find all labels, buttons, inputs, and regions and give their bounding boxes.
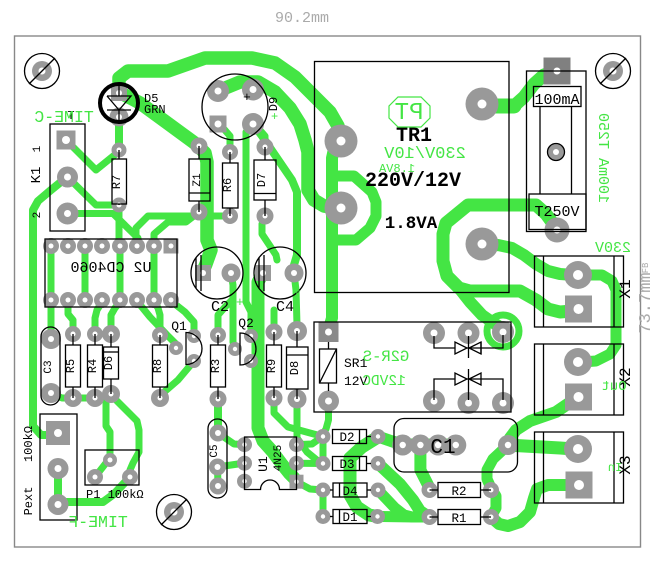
wire C5 pads vertical — [214, 467, 222, 486]
pad X2 round — [564, 348, 592, 376]
pad C4 round — [285, 264, 304, 283]
wire K1-2 to R7 bottom — [68, 177, 120, 205]
pads Pext round — [48, 458, 69, 479]
resistor R5 outline — [66, 345, 81, 387]
pad TR1 p4 — [466, 228, 499, 261]
pads D6 — [102, 325, 120, 343]
svg-text:+: + — [243, 90, 251, 105]
pad fuse top square — [544, 58, 571, 85]
resistor R3 outline — [211, 345, 226, 387]
cap C5 outline — [208, 419, 227, 498]
wire P1 top up — [106, 400, 110, 460]
pad TR1 p3 — [466, 88, 499, 121]
pads R4 — [87, 326, 103, 342]
wire U1 to D3 — [297, 460, 324, 467]
svg-text:X1: X1 — [617, 279, 635, 298]
svg-text:1.8VA: 1.8VA — [378, 162, 415, 176]
wire C1 right to X3 round — [507, 445, 574, 449]
wire C1 right zigzag R2 R1 — [487, 446, 507, 515]
wire C4 to D8 top — [294, 273, 297, 331]
svg-text:T250V: T250V — [534, 204, 579, 221]
wire R6 top to D9 — [218, 124, 230, 152]
connector K1 outline — [50, 124, 85, 231]
wire C4 square to U1 square — [258, 273, 297, 482]
cap C1 outline — [394, 419, 518, 473]
wire D4 right to R1 left — [378, 490, 429, 517]
wire C5 to U1 pin — [218, 433, 245, 445]
pads R1 — [422, 509, 438, 525]
resistor R4 outline — [88, 345, 103, 387]
pad D7 top — [257, 139, 274, 156]
wire D2 right S-band to D1 right — [350, 437, 378, 517]
svg-text:100mA: 100mA — [534, 92, 579, 109]
pad fuse bottom — [545, 218, 570, 243]
pads U2 top row — [43, 238, 59, 254]
mounting hole bottom-left — [157, 495, 192, 530]
wire D3 right to R1 left — [378, 464, 429, 518]
connector X2 outline — [535, 344, 624, 415]
pad Pext square — [46, 421, 70, 445]
svg-text:U1: U1 — [256, 456, 271, 472]
pad D5 round — [110, 108, 129, 127]
resistor R7 leads — [118, 150, 120, 159]
svg-text:C1: C1 — [430, 437, 455, 460]
pad C3 top — [41, 329, 61, 349]
svg-text:R9: R9 — [265, 359, 279, 373]
svg-text:+: + — [271, 110, 278, 124]
svg-text:K1: K1 — [29, 167, 45, 184]
svg-text:TIME-C: TIME-C — [34, 108, 94, 127]
wire SR1 coil to D2 left — [323, 401, 329, 434]
connector Pext outline — [40, 414, 77, 520]
trimmer P1 outline — [85, 450, 139, 485]
wire D6 top — [111, 302, 120, 330]
svg-text:D1: D1 — [342, 511, 357, 525]
ring octagon around TR1 pad2 — [332, 176, 376, 240]
bridge D9 outline — [202, 74, 268, 140]
diode D6 outline — [104, 347, 119, 379]
wire R9 bottom to D2 left — [274, 398, 323, 437]
pad TR1 p2 — [325, 192, 358, 225]
wire U2 column verticals — [48, 246, 55, 300]
wire thick D5 to C2 square — [119, 92, 211, 271]
diode D4 outline — [333, 483, 367, 497]
svg-text:D4: D4 — [342, 485, 357, 499]
resistor R1 outline — [438, 510, 481, 525]
pads D8 — [287, 321, 307, 341]
relay SR1 outline — [314, 322, 511, 412]
wire ring to relay ring — [459, 288, 503, 331]
resistor R9 outline — [267, 345, 282, 387]
wire R1 right to X3 square — [491, 485, 575, 526]
wire R7 bottom to U2 pad — [116, 205, 123, 246]
pad X1 round — [564, 261, 592, 289]
svg-text:D2: D2 — [339, 431, 354, 445]
wire Q1 left — [137, 301, 176, 348]
svg-text:+: + — [236, 295, 244, 310]
wire chain to P1 right — [111, 395, 139, 470]
pad D9 se — [242, 113, 264, 135]
svg-text:D8: D8 — [288, 361, 302, 375]
pad holes — [62, 136, 70, 144]
pads U2 bottom row — [43, 292, 59, 308]
ring relay pad — [487, 315, 519, 347]
svg-text:GRN: GRN — [144, 103, 166, 117]
wire X2 square to C1 right — [508, 397, 578, 445]
pad D7 bottom — [257, 208, 274, 225]
wire C2 to Q2 left — [231, 273, 235, 349]
pads D3 — [316, 456, 331, 471]
wire D8 bottom to D3 left — [297, 399, 323, 464]
wire Q2 bottom — [251, 361, 260, 372]
svg-text:R2: R2 — [451, 485, 466, 499]
svg-text:C2: C2 — [211, 299, 229, 316]
svg-text:D7: D7 — [255, 173, 269, 187]
pad K1-2 — [57, 167, 78, 188]
svg-text:12VDC: 12VDC — [362, 374, 406, 390]
wire D4-D1 left pads — [320, 490, 327, 517]
zener Z1 outline — [189, 159, 210, 201]
diode D7 leads — [264, 147, 266, 160]
wire P1 right to Pext bottom — [58, 477, 130, 504]
wire thick arc D5 over D9 to TR1 pad1 — [119, 58, 341, 141]
pads R2 — [422, 482, 438, 498]
pads U1 — [237, 437, 252, 452]
svg-text:FB: FB — [641, 262, 651, 273]
svg-text:D6: D6 — [102, 356, 116, 370]
pad TR1 p1 — [325, 125, 358, 158]
wire D2 right to C1 — [378, 437, 403, 445]
svg-text:C5: C5 — [209, 444, 221, 457]
relay contact diagram top — [434, 335, 503, 358]
pad fuse mid — [548, 144, 564, 160]
pad X2 square — [565, 384, 592, 411]
pads D1 — [316, 509, 331, 524]
connector X3 outline — [535, 432, 624, 503]
wire D2-D3 left pads — [320, 437, 327, 464]
svg-text:P1 100kΩ: P1 100kΩ — [86, 488, 144, 502]
pads Q2 — [228, 342, 242, 356]
svg-text:Pext: Pext — [22, 487, 36, 516]
svg-text:R5: R5 — [64, 359, 78, 373]
pads D2 — [316, 429, 331, 444]
svg-text:R4: R4 — [86, 359, 100, 373]
pad R6 top — [222, 144, 238, 160]
connector X1 outline — [535, 256, 624, 327]
pad C2 round — [222, 264, 241, 283]
wire C3 top — [48, 300, 55, 331]
wire C5 mid to U1 — [218, 463, 245, 467]
pads R9 — [266, 324, 283, 341]
svg-text:1: 1 — [32, 145, 44, 152]
wire Q1 bottom to R8 bottom — [160, 361, 194, 396]
svg-text:G2R-S: G2R-S — [363, 348, 410, 366]
diode D2 outline — [333, 430, 367, 444]
pads Q1 — [169, 341, 183, 355]
wire bend to fuse square pad — [514, 71, 555, 106]
svg-text:Z1: Z1 — [192, 173, 204, 187]
pad D5 square — [111, 85, 127, 101]
transistor Q2 outline — [240, 333, 256, 365]
wire D1 right to R1 left — [378, 511, 429, 523]
svg-text:4N25: 4N25 — [273, 445, 285, 471]
wire U1 to D2 — [297, 437, 324, 445]
pad X1 square — [565, 296, 592, 323]
transistor Q1 outline — [186, 333, 202, 365]
wire behind C1 pads — [403, 439, 456, 448]
wire K1-1 to R7 top — [72, 146, 119, 170]
wire Q1 top — [171, 301, 194, 333]
svg-text:TIME-F: TIME-F — [68, 513, 127, 532]
wire D7 top to D9 — [253, 125, 265, 147]
svg-text:100mA T250: 100mA T250 — [594, 113, 611, 203]
wire U1 sq to D4 — [297, 482, 324, 490]
wire R5 top — [68, 300, 73, 331]
pads R8 — [152, 327, 168, 343]
svg-text:D3: D3 — [339, 458, 354, 472]
pad R6 bottom — [222, 208, 238, 224]
IC socket U2 outline — [45, 239, 177, 307]
wire R8 top — [154, 301, 160, 332]
pad R7 bottom — [112, 198, 127, 213]
svg-text:Q2: Q2 — [238, 316, 254, 331]
pad X3 round — [564, 435, 592, 463]
pad SR1 coil square — [319, 322, 339, 342]
pads P1 — [103, 453, 117, 467]
wire D9 pad to C4 round — [253, 124, 297, 273]
wire K1-3 to U2 pad — [68, 214, 139, 247]
wire U2 pads to Z1/R6 bottom — [136, 216, 230, 246]
svg-text:230V: 230V — [595, 240, 631, 257]
diode D7 outline — [254, 160, 276, 200]
wire P1 internal — [95, 460, 110, 477]
pad C4 square — [255, 265, 271, 281]
pads R5 — [65, 326, 81, 342]
pads C1 — [392, 435, 413, 456]
svg-text:R1: R1 — [451, 512, 466, 526]
pads R3 — [210, 327, 226, 343]
svg-text:90.2mm: 90.2mm — [275, 10, 329, 27]
wire TR1 pad4 to X1 round — [482, 245, 574, 275]
wire D7 bottom down — [262, 216, 277, 260]
pad X3 square — [566, 472, 593, 499]
wire R3 bottom to C5 — [214, 399, 222, 433]
wire X1 round wrap to X2 round — [578, 275, 616, 362]
svg-text:100kΩ: 100kΩ — [22, 426, 36, 462]
pad SR1 coil round — [318, 391, 339, 412]
pad D9 sw square — [210, 116, 227, 133]
pad D9 ne — [242, 79, 264, 101]
resistor R7 outline — [112, 159, 127, 204]
wire C1 to R2 left — [420, 445, 429, 488]
diode D8 outline — [287, 347, 309, 389]
wire D5 to R7 top — [115, 117, 123, 149]
fuse outline — [527, 71, 587, 232]
svg-text:U2 CD4060: U2 CD4060 — [70, 260, 151, 277]
svg-text:2: 2 — [32, 212, 44, 219]
relay contact diagram bottom — [434, 369, 503, 400]
pads C5 — [210, 425, 227, 442]
resistor R8 outline — [153, 345, 168, 387]
wire D9 pad down between C2 C4 to Q2 top — [246, 124, 253, 336]
wire K1-2 left rail to Pext — [33, 177, 67, 435]
svg-text:In: In — [608, 461, 622, 475]
pad Z1 bottom — [191, 204, 208, 221]
svg-text:PT: PT — [395, 100, 424, 127]
wire R9 top — [271, 310, 278, 332]
resistor R6 outline — [223, 163, 239, 208]
pad C2 square — [195, 265, 211, 281]
svg-text:R8: R8 — [151, 359, 165, 373]
wire bottom chain C3-R5-R4-D6 — [51, 393, 111, 398]
cap C4 outline — [254, 247, 306, 299]
zener Z1 leads — [198, 146, 200, 159]
svg-text:+: + — [293, 284, 301, 299]
pad R7 top — [112, 143, 127, 158]
wire Pext pads — [54, 469, 62, 505]
pad D9 nw — [207, 80, 229, 102]
svg-text:C3: C3 — [43, 360, 55, 373]
svg-text:R3: R3 — [209, 359, 223, 373]
logo PT octagon — [389, 97, 430, 127]
svg-text:R7: R7 — [110, 175, 124, 189]
mounting hole top-right — [596, 54, 631, 89]
pads SR1 contacts — [423, 322, 445, 344]
svg-text:1.8VA: 1.8VA — [385, 214, 438, 234]
svg-text:C4: C4 — [276, 299, 294, 316]
resistor R2 outline — [438, 483, 481, 498]
svg-text:R6: R6 — [221, 178, 235, 192]
mounting hole top-left — [25, 54, 60, 89]
wire inner arc D9 to TR1 pad2 — [218, 82, 341, 208]
wire fuse bottom around TR1 pad4 to X1 square — [443, 205, 578, 312]
diode D3 outline — [333, 457, 367, 471]
wire R4 top — [95, 302, 102, 331]
cap C3 outline — [41, 327, 60, 405]
LED D5 outline — [100, 84, 138, 122]
pad C3 bottom — [41, 383, 61, 403]
pad K1-1 square — [57, 131, 76, 150]
wire U2 pad to Z1 bottom — [154, 212, 199, 246]
pads D4 — [316, 483, 331, 498]
svg-text:73.7mm: 73.7mm — [637, 272, 656, 333]
optocoupler U1 outline — [245, 437, 297, 490]
wire TR1 pad1 down to SR1 coil — [329, 141, 342, 330]
svg-text:Out: Out — [601, 379, 626, 395]
wire R3 top — [218, 299, 233, 335]
pad Z1 top — [191, 138, 208, 155]
cap C2 outline — [191, 247, 243, 299]
pad K1-3 — [57, 203, 79, 225]
wire TR1 pad3 to fuse — [482, 99, 514, 114]
transformer TR1 outline — [315, 62, 510, 293]
resistor R6 leads — [229, 152, 231, 163]
diode D1 outline — [333, 510, 367, 524]
svg-text:Q1: Q1 — [171, 319, 187, 334]
